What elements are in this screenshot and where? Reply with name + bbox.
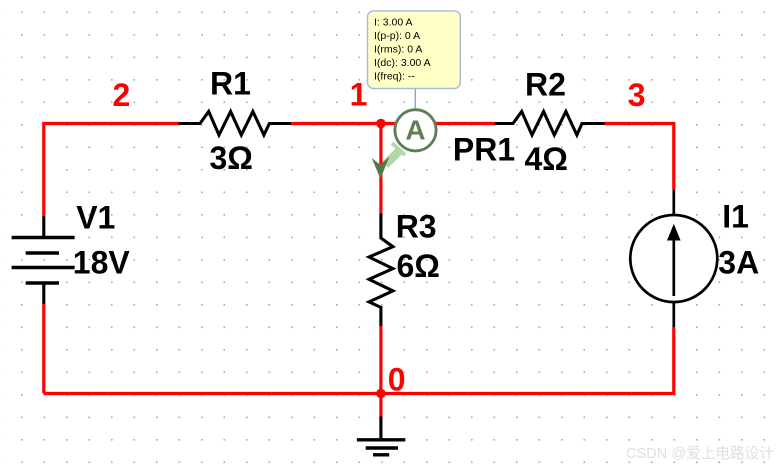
svg-text:I1: I1: [722, 199, 749, 235]
wire top-left: node2 segment from left corner to R1: [44, 124, 179, 217]
svg-text:4Ω: 4Ω: [525, 141, 568, 177]
svg-text:R1: R1: [210, 66, 251, 102]
junction node 1: [376, 119, 386, 129]
probe PR1 arrow shaft: [385, 152, 399, 165]
svg-text:CSDN @爱上电路设计: CSDN @爱上电路设计: [626, 445, 774, 462]
svg-text:1: 1: [350, 77, 368, 113]
probe PR1 ammeter circle: [395, 110, 436, 151]
wire node3: R2 to right corner down to current source: [605, 124, 674, 191]
svg-text:PR1: PR1: [453, 132, 515, 168]
svg-text:I(dc): 3.00 A: I(dc): 3.00 A: [374, 57, 431, 69]
svg-text:I: 3.00 A: I: 3.00 A: [374, 17, 413, 29]
resistor R3 (vertical): [369, 214, 393, 327]
svg-text:R2: R2: [525, 67, 566, 103]
wire middle vertical: R3 to node 0 and ground: [379, 326, 382, 417]
current source I1: [630, 190, 717, 327]
svg-text:6Ω: 6Ω: [397, 248, 440, 284]
probe PR1 arrow white halo: [388, 144, 404, 160]
probe PR1 callout line: [414, 89, 416, 111]
svg-text:I(p-p): 0 A: I(p-p): 0 A: [374, 30, 420, 42]
svg-text:I(rms): 0 A: I(rms): 0 A: [374, 44, 422, 56]
tooltip box with measurements: [368, 11, 461, 89]
svg-text:A: A: [405, 114, 425, 145]
svg-text:I(freq): --: I(freq): --: [374, 71, 415, 83]
resistor R2: [495, 112, 605, 136]
probe PR1 arrowhead: [372, 157, 390, 179]
wire middle vertical: node1 down to R3: [379, 124, 382, 214]
svg-text:R3: R3: [396, 208, 437, 244]
ground: [357, 417, 405, 455]
svg-text:V1: V1: [76, 200, 115, 236]
svg-text:3Ω: 3Ω: [210, 140, 253, 176]
svg-text:3A: 3A: [718, 245, 759, 281]
battery V1: [12, 216, 75, 304]
svg-text:0: 0: [388, 361, 406, 397]
svg-text:2: 2: [113, 77, 131, 113]
wire left-bottom: battery to bottom rail: [42, 304, 45, 394]
svg-text:18V: 18V: [73, 244, 131, 280]
wire node1 top: R1 to R2 through probe: [291, 122, 494, 125]
resistor R1: [179, 112, 292, 136]
junction node 0: [376, 389, 386, 399]
wire bottom: node 0 rail: [44, 327, 674, 394]
svg-text:3: 3: [628, 77, 646, 113]
probe PR1 arrow fletch crossbar: [392, 143, 405, 155]
